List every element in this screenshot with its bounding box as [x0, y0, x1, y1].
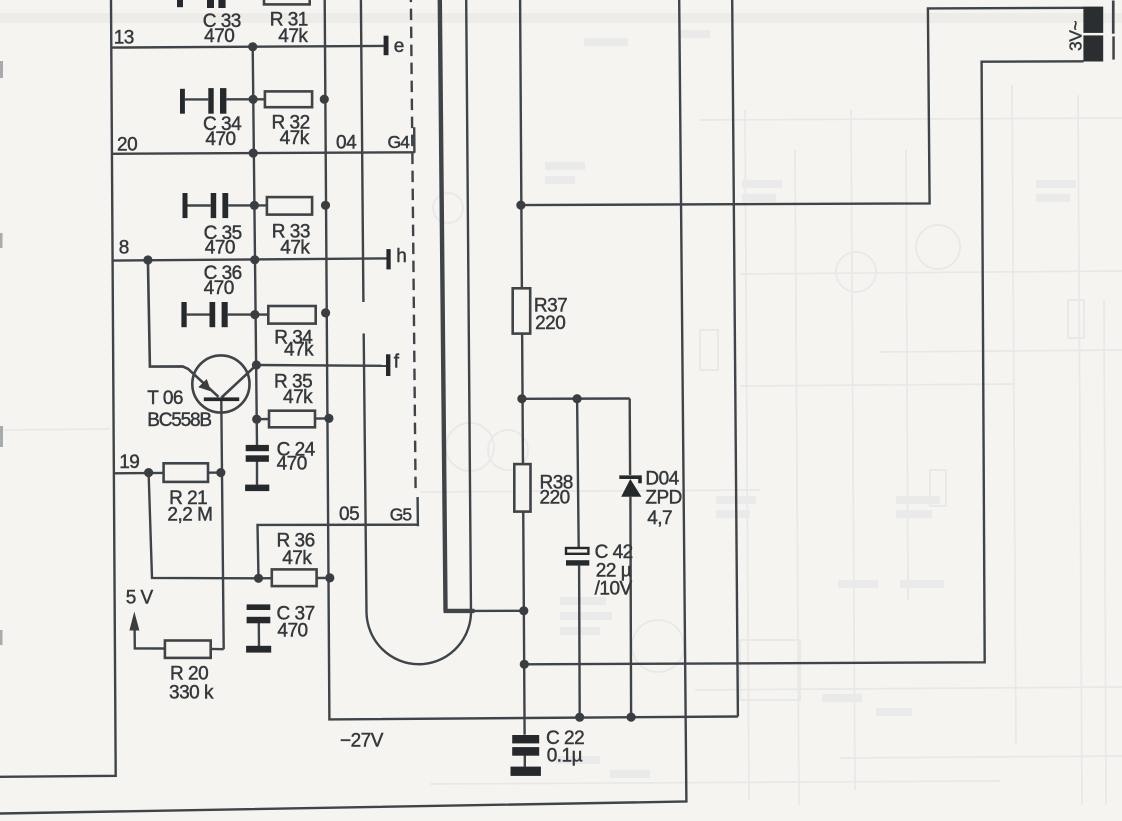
power 5V arrow [129, 612, 139, 631]
svg-text:2,2 M: 2,2 M [167, 505, 212, 526]
wire R36 right lead [317, 577, 330, 579]
wire C34 leads [185, 98, 265, 100]
wire vertical column x254 joining C33-C36 rows [253, 47, 257, 445]
svg-text:5 V: 5 V [126, 587, 154, 608]
wire transistor base lead down to R20 [221, 401, 223, 649]
svg-text:47k: 47k [280, 128, 310, 149]
resistor R34 [268, 306, 315, 324]
svg-text:13: 13 [114, 28, 134, 49]
resistor R32 [265, 91, 312, 107]
svg-text:/10V: /10V [595, 578, 633, 599]
wire screen lead to R38 node [475, 610, 524, 613]
svg-text:4,7: 4,7 [647, 508, 672, 529]
wire dashed module boundary [411, 0, 416, 490]
resistor R37 [513, 288, 531, 333]
wire C24 mid lead [256, 462, 258, 485]
wire C35 leads [188, 204, 267, 207]
svg-text:BC558B: BC558B [147, 410, 211, 431]
transistor T06 emitter arrow [198, 379, 211, 391]
wire left border vertical with bottom-left exit [0, 0, 116, 777]
wire node 13 row [111, 46, 384, 48]
svg-text:3V~: 3V~ [1066, 21, 1086, 51]
wire R21 to base node [208, 471, 221, 474]
svg-text:470: 470 [277, 620, 307, 641]
scan band [0, 13, 1122, 23]
wire 5V arrow stem and lead to R20 [135, 626, 165, 649]
wire node 19 down branch to R36 row [149, 473, 259, 579]
svg-text:330 k: 330 k [169, 683, 214, 704]
svg-text:G4: G4 [388, 132, 411, 152]
wire node B R37 bottom row [522, 397, 630, 400]
terminal f [386, 354, 390, 376]
wire node C lower rail to 3V connector [524, 61, 1083, 664]
capacitor C33 top cut plates [177, 0, 226, 8]
svg-text:220: 220 [540, 487, 570, 508]
transistor Q1 T06 circle [192, 355, 249, 412]
wire node 19 row left [114, 472, 164, 475]
svg-text:h: h [396, 246, 406, 267]
diode D04 triangle [621, 479, 641, 497]
resistor R20 [165, 641, 211, 658]
svg-text:47k: 47k [282, 548, 312, 569]
wire bus x326 with -27V rail [325, 0, 738, 719]
capacitor C42 electrolytic [566, 548, 588, 554]
wire C37 mid lead [258, 623, 261, 646]
wire zener D04 bottom lead [629, 497, 632, 718]
resistor R31 [264, 0, 310, 4]
resistor R35 [269, 411, 315, 428]
diode D04 zener cathode bar [619, 477, 640, 483]
wire node 8 row [112, 258, 386, 260]
connector 3V plug lower contact [1083, 35, 1103, 61]
svg-text:470: 470 [205, 129, 235, 150]
svg-text:220: 220 [535, 313, 565, 334]
connector 3V plug upper contact [1083, 7, 1103, 33]
wire R20 right lead [211, 648, 224, 651]
wire connector G5 tick [416, 497, 419, 526]
svg-text:05: 05 [339, 504, 359, 525]
svg-text:47k: 47k [284, 340, 314, 361]
svg-text:47k: 47k [283, 387, 313, 408]
connector 3V mating pin lower [1112, 36, 1115, 59]
capacitor C22 [511, 735, 541, 776]
wire C42 top lead [577, 399, 579, 548]
svg-text:0.1µ: 0.1µ [547, 746, 583, 767]
wire R36 left lead [259, 577, 272, 579]
wire terminal f row [256, 364, 386, 367]
capacitor C24 [245, 445, 269, 491]
connector 3V mating pin upper [1112, 1, 1115, 34]
wire C36 leads [187, 313, 269, 315]
wire vertical x679 with page bottom rail [0, 0, 686, 814]
terminal h [386, 249, 390, 269]
wire shield loop outer U [364, 0, 471, 664]
svg-text:470: 470 [204, 26, 234, 47]
left edge scan marks [0, 61, 3, 645]
wire thick screen lead bottom [444, 609, 475, 613]
wire emitter branch from node 8 [148, 260, 219, 397]
wire R35 left lead [257, 418, 269, 421]
svg-text:R 20: R 20 [170, 663, 208, 684]
svg-text:ZPD: ZPD [645, 487, 682, 508]
wire vertical x732 [732, 0, 738, 717]
wire R35 right lead [315, 417, 329, 420]
capacitor C34 [180, 88, 226, 114]
transistor T06 base bar [204, 397, 239, 401]
resistor R36 [272, 569, 317, 586]
svg-text:19: 19 [119, 452, 139, 473]
wire vertical x520 R37 R38 C22 branch [520, 0, 525, 735]
svg-text:8: 8 [119, 238, 129, 259]
svg-text:T 06: T 06 [147, 388, 183, 409]
wire node A top rail to 3V connector [521, 8, 1084, 205]
svg-text:04: 04 [336, 132, 357, 153]
wire C42 bottom lead [578, 566, 581, 718]
svg-text:20: 20 [117, 135, 137, 156]
svg-text:G5: G5 [390, 504, 412, 524]
svg-text:470: 470 [277, 453, 307, 474]
resistor R38 [514, 464, 530, 512]
wire node 05 G5 row [258, 525, 418, 579]
svg-text:−27V: −27V [340, 731, 384, 752]
wire thick screen lead [440, 0, 446, 609]
svg-text:47k: 47k [280, 238, 310, 259]
svg-text:e: e [394, 36, 404, 57]
svg-text:470: 470 [205, 238, 235, 259]
capacitor C35 [183, 193, 229, 218]
wire connector G4 tick [413, 127, 416, 153]
capacitor C37 [246, 604, 271, 652]
svg-text:47k: 47k [278, 26, 308, 47]
wire collector diagonal [222, 365, 257, 398]
svg-text:470: 470 [204, 278, 234, 299]
resistor R33 [267, 197, 312, 215]
wire shield loop outer left upper [361, 0, 364, 302]
wire C22 mid lead [524, 756, 526, 767]
capacitor C36 [181, 302, 227, 327]
resistor R21 [164, 463, 208, 482]
wire node 20 row [112, 152, 415, 154]
terminal e [384, 36, 389, 56]
wire zener D04 top lead [629, 399, 632, 476]
